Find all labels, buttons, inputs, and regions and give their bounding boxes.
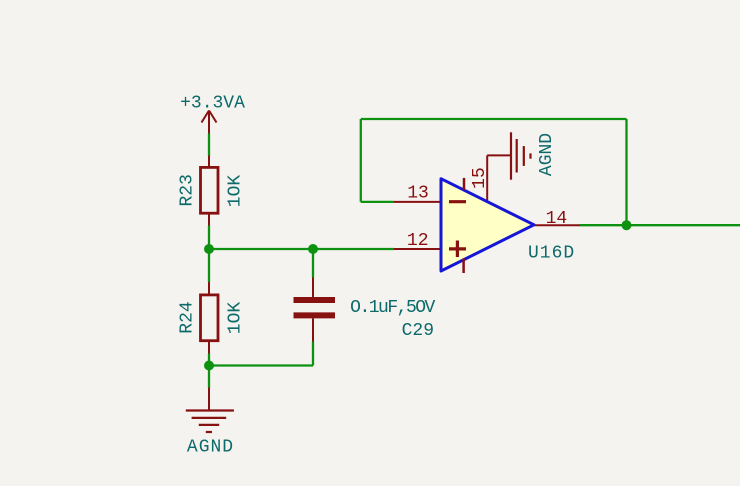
svg-text:R23: R23 <box>178 174 198 206</box>
svg-text:C29: C29 <box>402 321 434 341</box>
svg-text:R24: R24 <box>178 301 198 333</box>
svg-text:13: 13 <box>407 184 429 204</box>
svg-text:AGND: AGND <box>187 438 234 458</box>
svg-text:1OK: 1OK <box>225 175 245 208</box>
svg-text:15: 15 <box>470 167 490 189</box>
svg-text:1OK: 1OK <box>225 302 245 335</box>
svg-text:+3.3VA: +3.3VA <box>180 93 245 113</box>
svg-text:U16D: U16D <box>528 243 575 263</box>
svg-text:12: 12 <box>407 231 429 251</box>
svg-text:AGND: AGND <box>537 133 557 176</box>
svg-text:O.1uF,5OV: O.1uF,5OV <box>350 298 435 318</box>
svg-text:14: 14 <box>546 209 568 229</box>
